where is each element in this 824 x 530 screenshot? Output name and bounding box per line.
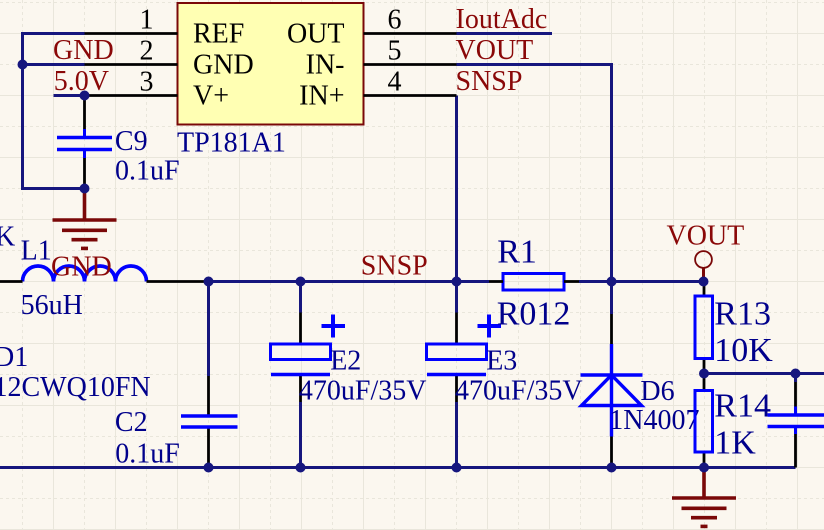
svg-text:R13: R13 — [714, 296, 771, 333]
svg-text:12CWQ10FN: 12CWQ10FN — [0, 372, 151, 403]
wire: D6 branch — [610, 282, 613, 315]
wire: main rail left part — [209, 280, 490, 283]
svg-text:0.1uF: 0.1uF — [115, 156, 180, 187]
svg-text:C9: C9 — [115, 126, 148, 157]
svg-text:1K: 1K — [714, 425, 756, 462]
svg-text:1N4007: 1N4007 — [609, 405, 699, 436]
pin 1 REF — [85, 32, 178, 35]
node: bottom junction E3 — [452, 463, 462, 473]
pin 2 GND — [85, 63, 178, 66]
node: rail junction E2 — [296, 277, 306, 287]
wire: IoutAdc net from pin6 — [457, 32, 553, 35]
pin 5 IN- — [364, 63, 457, 66]
svg-text:E2: E2 — [330, 346, 361, 377]
svg-text:V+: V+ — [193, 81, 229, 112]
wire: right cap branch — [794, 374, 797, 383]
node: feedback junction R13/R14 — [699, 369, 709, 379]
svg-text:SNSP: SNSP — [361, 250, 428, 281]
svg-text:2: 2 — [140, 36, 154, 67]
svg-text:VOUT: VOUT — [667, 221, 745, 252]
wire: R1 right lead — [564, 280, 579, 283]
wire: R14 leads — [703, 374, 706, 391]
capacitor E3 (polarized) — [427, 315, 502, 375]
ground (bottom right) — [672, 467, 736, 527]
svg-text:K: K — [0, 222, 15, 253]
svg-text:SNSP: SNSP — [456, 66, 523, 97]
wire: E3 branch — [455, 282, 458, 313]
wire: E2 branch — [299, 282, 302, 313]
wire: R13 leads — [703, 282, 706, 297]
node: feedback junction right cap — [791, 369, 801, 379]
resistor R14 — [695, 391, 713, 453]
wire: feedback row to right cap — [704, 372, 824, 375]
inductor L1 — [23, 266, 147, 282]
svg-text:470uF/35V: 470uF/35V — [455, 376, 583, 407]
svg-text:4: 4 — [388, 67, 402, 98]
wire: C2 branch — [207, 282, 210, 377]
svg-text:IN+: IN+ — [299, 81, 344, 112]
svg-text:L1: L1 — [21, 236, 52, 267]
wire: pin1 net top-left — [23, 34, 85, 189]
wire: pin2 GND net horizontal — [23, 63, 85, 66]
svg-text:C2: C2 — [115, 407, 148, 438]
capacitor C2 — [181, 416, 238, 427]
ground (below C9) — [53, 189, 117, 249]
svg-text:OUT: OUT — [287, 19, 345, 50]
diode D6 — [581, 344, 643, 437]
node: rail junction SNSP/E3 — [452, 277, 462, 287]
capacitor (right edge, cut off) — [768, 407, 824, 435]
svg-text:IoutAdc: IoutAdc — [456, 4, 548, 35]
pin 4 IN+ — [364, 94, 457, 97]
svg-text:GND: GND — [193, 50, 254, 81]
svg-text:E3: E3 — [486, 346, 517, 377]
node: rail junction C2 — [204, 277, 214, 287]
wire: L1 left lead — [0, 280, 23, 283]
node: junction pin2 row / left vertical — [18, 60, 28, 70]
svg-text:D1: D1 — [0, 342, 28, 373]
svg-text:GND: GND — [51, 252, 112, 283]
wire: C9 branch — [83, 96, 86, 130]
svg-text:5: 5 — [388, 36, 402, 67]
node: bottom junction C2 — [204, 463, 214, 473]
resistor R1 — [503, 274, 564, 291]
svg-text:TP181A1: TP181A1 — [177, 128, 286, 159]
wire: L1 right lead — [147, 280, 209, 283]
wire: bottom rail — [0, 466, 796, 469]
node: rail junction VOUT port/R13 — [699, 277, 709, 287]
wire: SNSP net from pin4 down to rail — [455, 96, 458, 282]
svg-text:1: 1 — [140, 5, 154, 36]
svg-text:VOUT: VOUT — [456, 35, 534, 66]
node: bottom junction R14/ground — [699, 463, 709, 473]
node: rail junction VOUT/D6 — [607, 277, 617, 287]
svg-text:6: 6 — [388, 5, 402, 36]
svg-text:IN-: IN- — [306, 50, 345, 81]
svg-text:GND: GND — [53, 35, 114, 66]
resistor R13 — [695, 296, 713, 359]
svg-text:D6: D6 — [640, 376, 674, 407]
wire: main rail right of R1 — [579, 280, 704, 283]
op-amp U1 TP181A1 body — [178, 3, 364, 125]
pin 3 V+ — [85, 94, 178, 97]
svg-text:0.1uF: 0.1uF — [115, 439, 180, 470]
node: junction C9 bottom / ground — [80, 184, 90, 194]
pin 6 OUT — [364, 32, 457, 35]
svg-text:56uH: 56uH — [21, 290, 83, 321]
capacitor C9 — [57, 138, 112, 150]
node: bottom junction D6 — [607, 463, 617, 473]
svg-text:10K: 10K — [714, 332, 773, 369]
svg-text:REF: REF — [193, 19, 244, 50]
wire: R1 left lead — [489, 280, 503, 283]
svg-text:R012: R012 — [497, 296, 571, 333]
capacitor E2 (polarized) — [271, 315, 346, 375]
svg-text:R1: R1 — [497, 234, 537, 271]
node: junction pin3 / C9 top — [80, 91, 90, 101]
wire: 5.0V stub to pin3 — [54, 94, 85, 97]
node: bottom junction E2 — [296, 463, 306, 473]
svg-text:470uF/35V: 470uF/35V — [299, 376, 427, 407]
svg-text:R14: R14 — [714, 388, 771, 425]
svg-text:3: 3 — [140, 67, 154, 98]
wire: VOUT net from pin5 down to rail — [457, 65, 612, 282]
